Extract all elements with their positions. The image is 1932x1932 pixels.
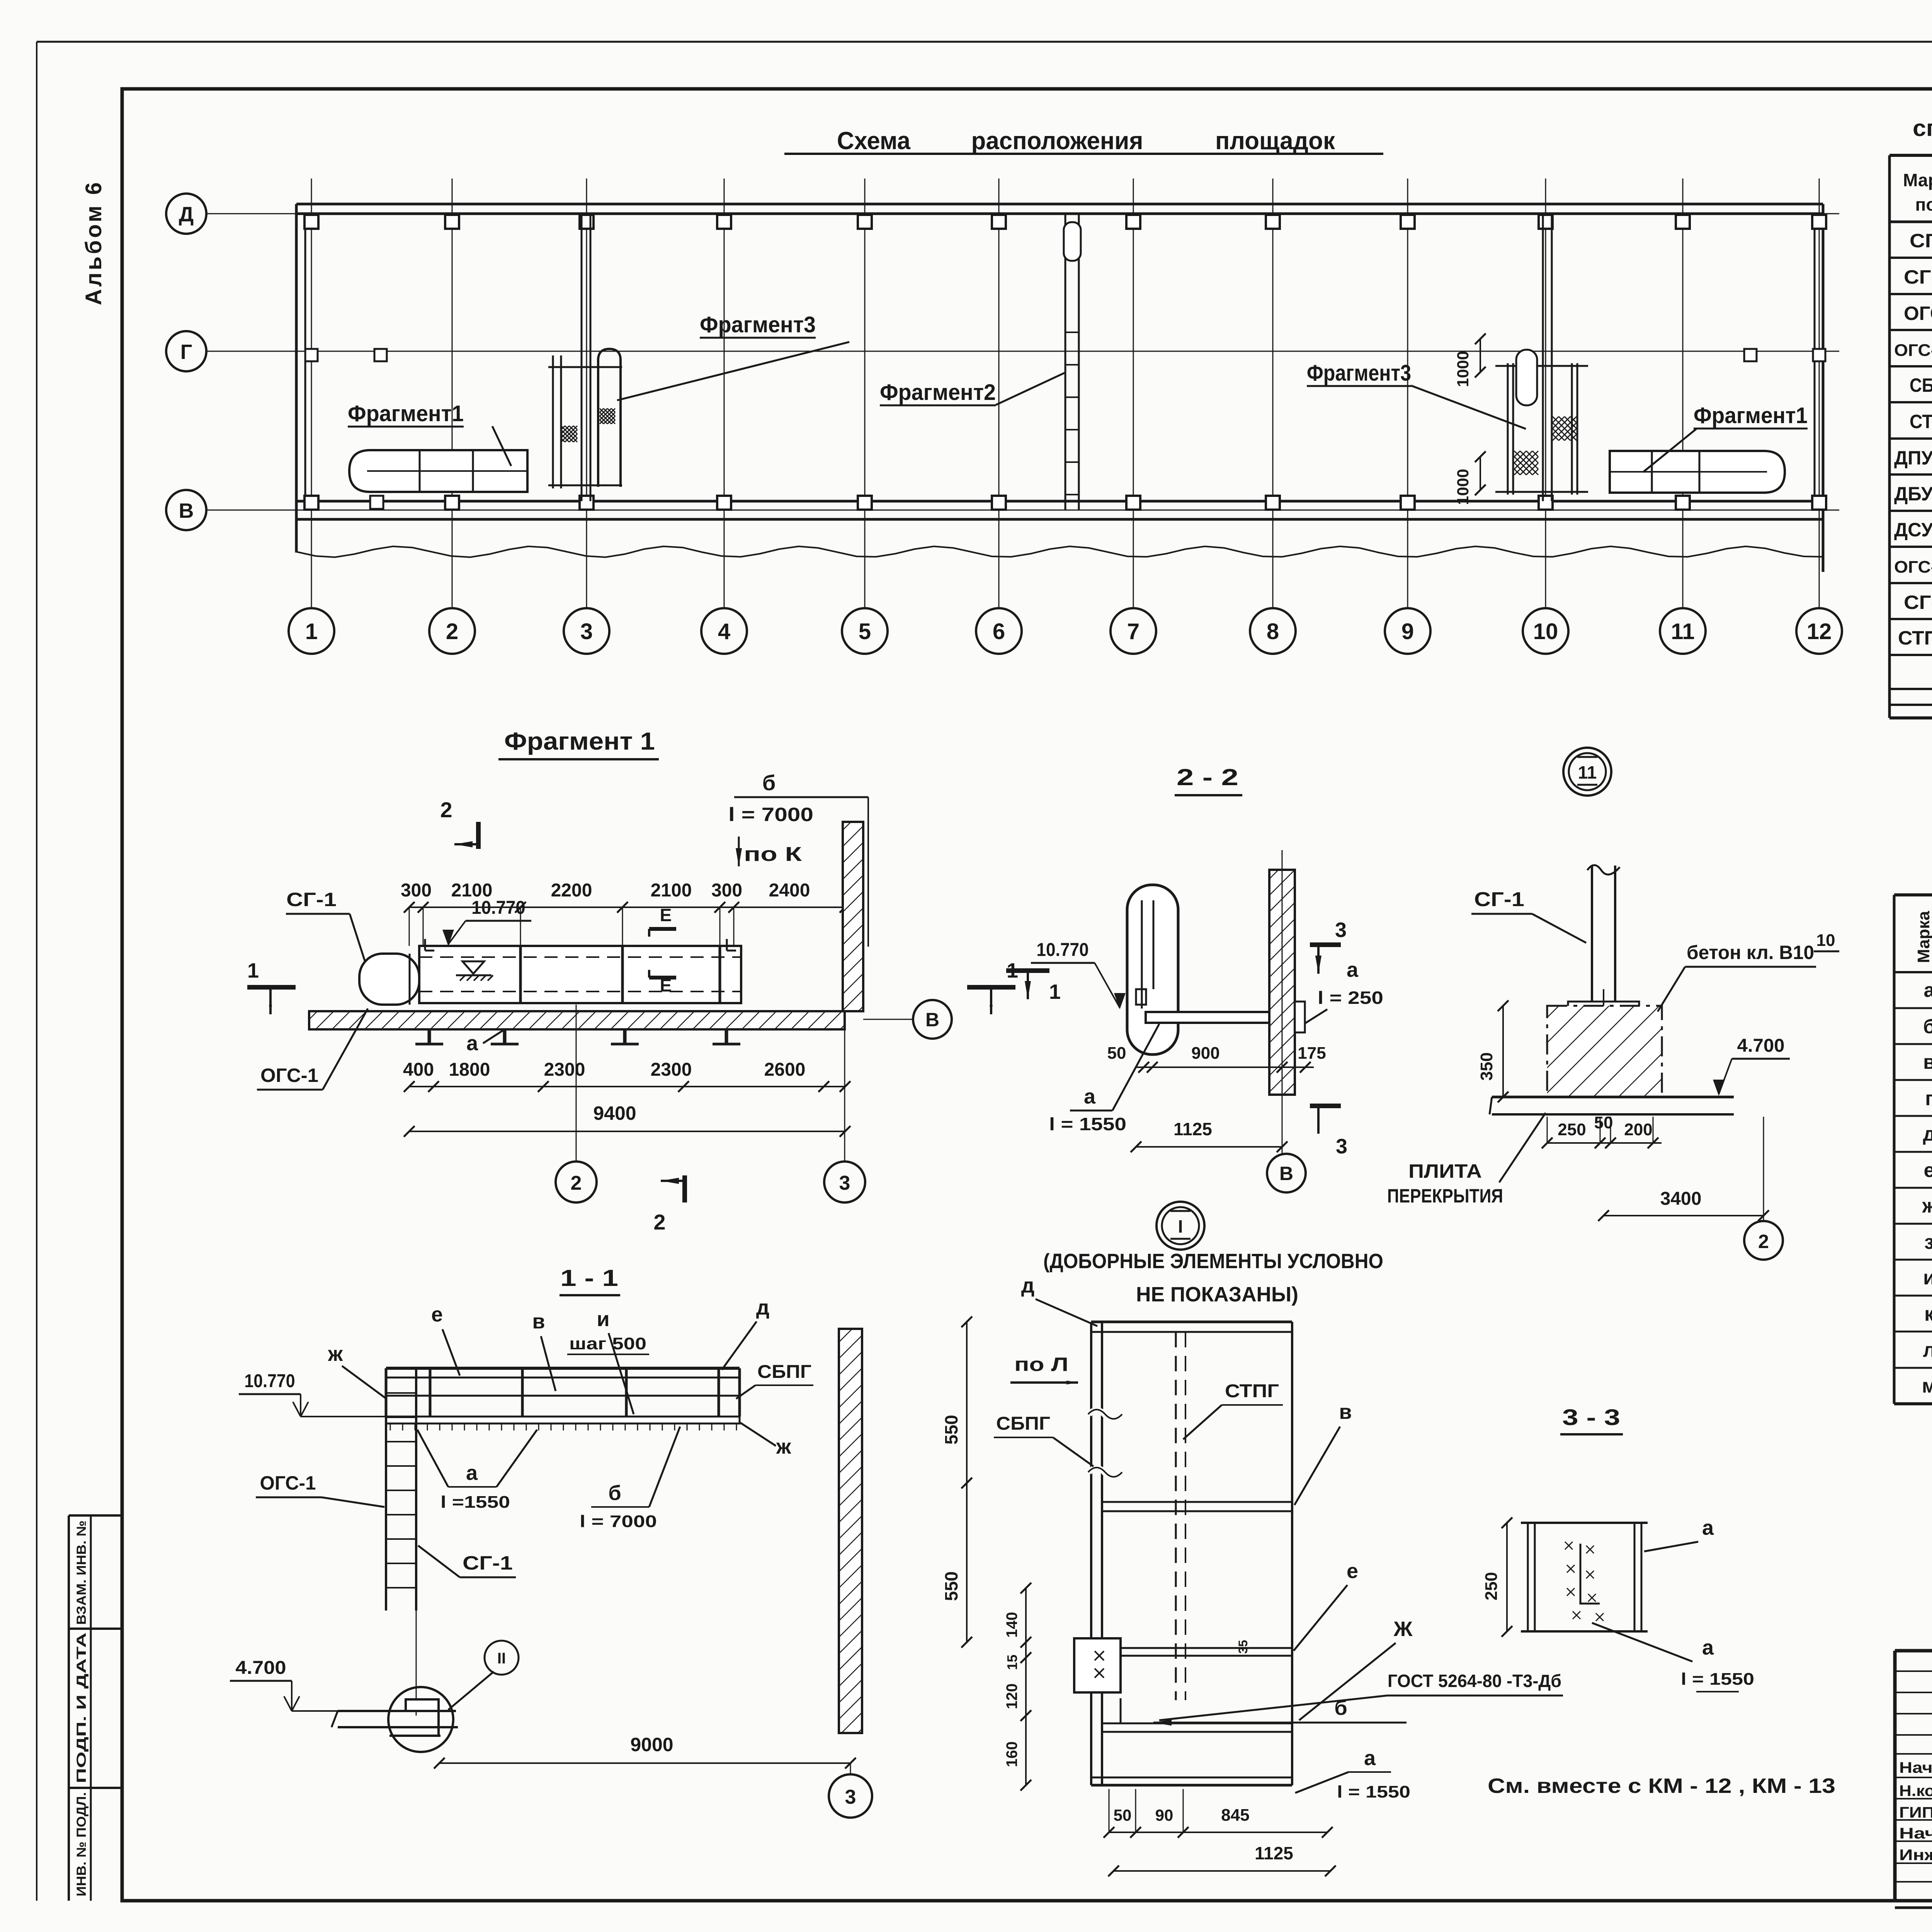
- svg-text:г: г: [1925, 1087, 1932, 1110]
- svg-text:ДСУГ-90: ДСУГ-90: [1894, 519, 1932, 541]
- svg-text:б: б: [1334, 1696, 1347, 1719]
- svg-text:1 - 1: 1 - 1: [560, 1265, 618, 1291]
- svg-text:СБПГ: СБПГ: [996, 1413, 1050, 1434]
- svg-text:2200: 2200: [551, 880, 592, 901]
- svg-text:2: 2: [571, 1172, 582, 1194]
- svg-text:2600: 2600: [764, 1060, 806, 1080]
- svg-text:10: 10: [1816, 931, 1835, 950]
- svg-text:В: В: [1279, 1163, 1293, 1184]
- svg-text:а: а: [466, 1461, 478, 1485]
- svg-text:в: в: [1339, 1400, 1352, 1423]
- svg-text:а: а: [1702, 1636, 1714, 1659]
- svg-text:ДПУГ-90: ДПУГ-90: [1894, 447, 1932, 469]
- svg-text:бетон кл. В10: бетон кл. В10: [1687, 942, 1814, 963]
- svg-text:СТПГ: СТПГ: [1225, 1381, 1279, 1401]
- svg-text:1: 1: [1049, 980, 1061, 1003]
- svg-text:л: л: [1923, 1339, 1932, 1361]
- svg-text:в: в: [532, 1310, 545, 1333]
- svg-text:е: е: [1924, 1159, 1932, 1182]
- svg-text:к: к: [1924, 1303, 1932, 1325]
- svg-text:спецификация элементов к схе: спецификация элементов к схеме расположе…: [1913, 115, 1932, 141]
- svg-text:50: 50: [1114, 1806, 1132, 1824]
- svg-text:Альбом 6: Альбом 6: [81, 180, 106, 305]
- svg-text:з: з: [1924, 1231, 1932, 1253]
- svg-text:по Л: по Л: [1014, 1354, 1068, 1375]
- svg-text:50: 50: [1107, 1044, 1126, 1063]
- svg-text:ОГС-48.4: ОГС-48.4: [1894, 558, 1932, 577]
- svg-text:120: 120: [1003, 1684, 1020, 1709]
- svg-text:1000: 1000: [1454, 351, 1472, 387]
- svg-text:ГИПстр.: ГИПстр.: [1899, 1804, 1932, 1821]
- svg-text:е: е: [431, 1303, 443, 1326]
- svg-text:Марка,: Марка,: [1903, 170, 1932, 190]
- svg-text:ПЕРЕКРЫТИЯ: ПЕРЕКРЫТИЯ: [1387, 1185, 1503, 1207]
- svg-text:l = 1550: l = 1550: [1049, 1114, 1126, 1134]
- svg-text:б: б: [762, 770, 776, 795]
- svg-text:СГ-1: СГ-1: [1910, 230, 1932, 252]
- svg-text:д: д: [1923, 1123, 1932, 1145]
- svg-text:ПОДП. И ДАТА: ПОДП. И ДАТА: [74, 1633, 89, 1783]
- svg-text:ОГС-1: ОГС-1: [260, 1065, 318, 1086]
- svg-text:15: 15: [1004, 1655, 1020, 1670]
- svg-text:ОГС-30.4: ОГС-30.4: [1894, 341, 1932, 360]
- svg-text:СГ-1: СГ-1: [1474, 888, 1524, 911]
- svg-text:2100: 2100: [651, 880, 692, 901]
- svg-text:Фрагмент1: Фрагмент1: [348, 401, 464, 426]
- svg-text:В: В: [925, 1009, 939, 1031]
- svg-text:3: 3: [839, 1172, 850, 1194]
- svg-text:l =1550: l =1550: [440, 1493, 510, 1512]
- svg-text:Е: Е: [660, 905, 672, 925]
- svg-text:l = 250: l = 250: [1318, 988, 1383, 1008]
- svg-text:90: 90: [1155, 1806, 1173, 1824]
- svg-text:а: а: [1364, 1747, 1376, 1770]
- svg-text:В: В: [179, 499, 194, 522]
- svg-text:250: 250: [1482, 1572, 1501, 1600]
- svg-text:6: 6: [993, 619, 1005, 644]
- svg-text:СГ-52: СГ-52: [1904, 266, 1932, 288]
- svg-text:Д: Д: [179, 203, 194, 226]
- svg-text:1000: 1000: [1454, 469, 1472, 505]
- svg-text:300: 300: [711, 880, 742, 901]
- svg-text:СГ-70: СГ-70: [1904, 592, 1932, 613]
- svg-text:д: д: [756, 1296, 769, 1319]
- svg-text:СБПГ: СБПГ: [757, 1362, 811, 1382]
- svg-text:200: 200: [1624, 1120, 1652, 1139]
- svg-text:НЕ ПОКАЗАНЫ): НЕ ПОКАЗАНЫ): [1136, 1283, 1298, 1306]
- svg-text:(ДОБОРНЫЕ ЭЛЕМЕНТЫ УСЛОВНО: (ДОБОРНЫЕ ЭЛЕМЕНТЫ УСЛОВНО: [1043, 1250, 1383, 1273]
- svg-text:б: б: [608, 1481, 621, 1505]
- svg-text:3 - 3: 3 - 3: [1562, 1405, 1620, 1430]
- svg-text:Н.контр.: Н.контр.: [1899, 1782, 1932, 1799]
- svg-text:ОГС-1: ОГС-1: [1904, 303, 1932, 324]
- svg-text:а: а: [1347, 958, 1359, 981]
- svg-text:10: 10: [1533, 619, 1558, 644]
- svg-text:Фрагмент2: Фрагмент2: [880, 380, 996, 405]
- svg-text:Г: Г: [180, 340, 192, 364]
- svg-text:2: 2: [440, 798, 452, 822]
- svg-text:4: 4: [718, 619, 730, 644]
- svg-text:845: 845: [1221, 1806, 1249, 1825]
- svg-text:10.770: 10.770: [471, 898, 525, 918]
- svg-text:9000: 9000: [630, 1734, 673, 1755]
- svg-text:ГОСТ 5264-80 -Т3-Дб: ГОСТ 5264-80 -Т3-Дб: [1388, 1671, 1561, 1691]
- svg-text:ж: ж: [328, 1342, 343, 1366]
- svg-text:См. вместе с КМ - 12 , КМ: См. вместе с КМ - 12 , КМ - 13: [1488, 1774, 1835, 1798]
- svg-text:1: 1: [305, 619, 318, 644]
- svg-text:ОГС-1: ОГС-1: [260, 1472, 316, 1494]
- svg-text:4.700: 4.700: [1737, 1036, 1785, 1056]
- svg-text:3: 3: [1336, 1135, 1347, 1158]
- svg-text:3400: 3400: [1660, 1189, 1702, 1209]
- svg-text:ж: ж: [1922, 1195, 1932, 1217]
- svg-text:400: 400: [403, 1060, 434, 1080]
- svg-text:l = 1550: l = 1550: [1681, 1670, 1754, 1689]
- svg-text:1: 1: [247, 959, 259, 982]
- svg-text:II: II: [497, 1650, 506, 1667]
- svg-text:Фрагмент1: Фрагмент1: [1694, 403, 1808, 428]
- svg-text:1125: 1125: [1173, 1119, 1212, 1139]
- svg-text:250: 250: [1558, 1120, 1586, 1139]
- svg-text:3: 3: [580, 619, 593, 644]
- svg-text:Марка: Марка: [1914, 911, 1932, 963]
- svg-text:4.700: 4.700: [235, 1658, 286, 1678]
- svg-text:и: и: [1923, 1267, 1932, 1289]
- svg-text:Нач.отд: Нач.отд: [1899, 1759, 1932, 1776]
- svg-text:12: 12: [1807, 619, 1832, 644]
- svg-text:Фрагмент3: Фрагмент3: [700, 312, 816, 337]
- svg-text:Нач.гр.: Нач.гр.: [1899, 1825, 1932, 1842]
- svg-text:2400: 2400: [769, 880, 810, 901]
- svg-text:8: 8: [1267, 619, 1279, 644]
- svg-text:ПЛИТА: ПЛИТА: [1408, 1160, 1482, 1182]
- svg-text:СГ-1: СГ-1: [463, 1552, 513, 1574]
- svg-text:а: а: [1924, 979, 1932, 1002]
- svg-text:а: а: [1084, 1085, 1096, 1108]
- svg-text:шаг 500: шаг 500: [569, 1334, 646, 1353]
- svg-text:175: 175: [1298, 1044, 1326, 1063]
- svg-text:ВЗАМ. ИНВ. №: ВЗАМ. ИНВ. №: [74, 1520, 89, 1625]
- svg-text:900: 900: [1191, 1044, 1219, 1063]
- svg-text:ИНВ. № ПОДЛ.: ИНВ. № ПОДЛ.: [74, 1792, 89, 1896]
- svg-text:11: 11: [1671, 619, 1694, 644]
- svg-text:3: 3: [1335, 918, 1347, 942]
- svg-text:ДБУГ-90: ДБУГ-90: [1894, 483, 1932, 505]
- svg-text:10.770: 10.770: [244, 1371, 295, 1391]
- svg-text:300: 300: [401, 880, 432, 901]
- svg-text:550: 550: [941, 1571, 961, 1601]
- svg-text:2: 2: [653, 1210, 665, 1234]
- svg-text:10.770: 10.770: [1036, 940, 1088, 960]
- svg-text:140: 140: [1003, 1612, 1020, 1638]
- svg-text:2300: 2300: [651, 1060, 692, 1080]
- svg-text:ж: ж: [776, 1435, 791, 1458]
- svg-text:Инж.1к.: Инж.1к.: [1899, 1847, 1932, 1864]
- svg-text:2: 2: [1758, 1231, 1769, 1252]
- svg-text:Ж: Ж: [1393, 1617, 1413, 1641]
- svg-text:l = 7000: l = 7000: [580, 1512, 657, 1531]
- svg-text:Фрагмент 1: Фрагмент 1: [504, 727, 655, 755]
- svg-text:по К: по К: [744, 843, 802, 866]
- svg-text:и: и: [597, 1308, 609, 1331]
- svg-text:СТПГ: СТПГ: [1910, 411, 1932, 432]
- svg-text:СТПГ-1: СТПГ-1: [1898, 627, 1932, 649]
- svg-text:1800: 1800: [449, 1060, 490, 1080]
- svg-text:9400: 9400: [593, 1102, 636, 1124]
- svg-text:СБПГ: СБПГ: [1910, 374, 1932, 396]
- svg-text:1125: 1125: [1255, 1843, 1293, 1863]
- svg-text:в: в: [1923, 1051, 1932, 1073]
- svg-text:Схема: Схема: [837, 127, 910, 155]
- svg-text:l = 7000: l = 7000: [728, 804, 813, 825]
- svg-text:160: 160: [1003, 1742, 1020, 1767]
- svg-text:350: 350: [1477, 1052, 1496, 1080]
- svg-text:2: 2: [446, 619, 458, 644]
- svg-text:б: б: [1923, 1015, 1932, 1038]
- svg-text:а: а: [466, 1032, 478, 1055]
- svg-text:9: 9: [1401, 619, 1414, 644]
- svg-text:СГ-1: СГ-1: [286, 889, 337, 910]
- svg-text:а: а: [1702, 1516, 1714, 1539]
- svg-text:5: 5: [859, 619, 871, 644]
- svg-text:2300: 2300: [544, 1060, 585, 1080]
- svg-text:площадок: площадок: [1215, 127, 1335, 155]
- svg-text:550: 550: [941, 1415, 961, 1445]
- svg-text:7: 7: [1127, 619, 1139, 644]
- svg-text:Фрагмент3: Фрагмент3: [1307, 361, 1411, 386]
- svg-text:поз.: поз.: [1915, 194, 1932, 214]
- svg-text:11: 11: [1578, 762, 1597, 782]
- svg-text:3: 3: [845, 1786, 856, 1808]
- svg-text:2 - 2: 2 - 2: [1177, 764, 1238, 790]
- svg-text:е: е: [1347, 1560, 1358, 1583]
- svg-text:l = 1550: l = 1550: [1337, 1782, 1410, 1801]
- svg-text:35: 35: [1236, 1640, 1250, 1654]
- svg-text:д: д: [1021, 1274, 1034, 1297]
- svg-text:м: м: [1922, 1375, 1932, 1397]
- svg-text:I: I: [1178, 1216, 1183, 1236]
- svg-text:расположения: расположения: [971, 127, 1143, 155]
